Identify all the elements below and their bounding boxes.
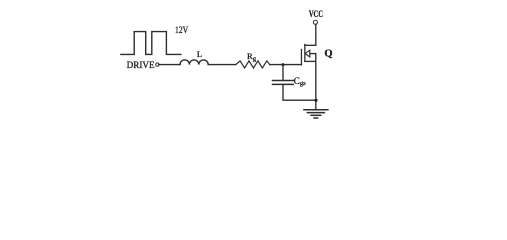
svg-text:12V: 12V — [175, 25, 188, 36]
svg-text:Rg: Rg — [247, 51, 257, 62]
svg-text:Cgs: Cgs — [294, 76, 306, 87]
svg-text:L: L — [197, 49, 202, 59]
svg-text:DRIVE: DRIVE — [127, 60, 155, 71]
svg-text:VCC: VCC — [309, 9, 323, 19]
svg-text:Q: Q — [324, 48, 332, 59]
